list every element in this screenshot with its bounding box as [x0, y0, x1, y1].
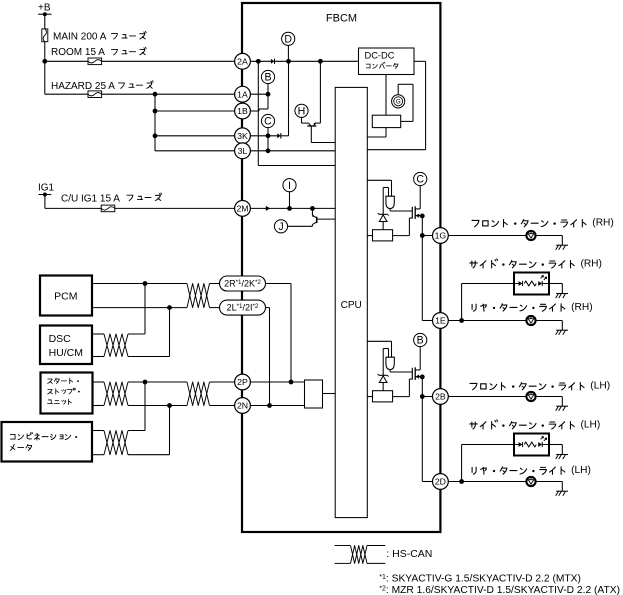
wire 2N row	[250, 405, 304, 407]
bulb front RH	[526, 231, 535, 240]
wire gate out (2B cell)	[389, 370, 391, 372]
wire twistPCM to ovals hi	[210, 283, 220, 285]
wire side LH out	[549, 444, 562, 446]
svg-text:2D: 2D	[435, 477, 446, 487]
pin 1E	[433, 313, 449, 329]
ground front LH	[556, 405, 568, 407]
gate driver symbol (2B cell)	[386, 357, 394, 369]
pin 1G	[433, 228, 449, 244]
LED side marker RH	[514, 273, 549, 295]
fuse HAZARD 25A	[88, 91, 102, 98]
pin 2A	[235, 53, 251, 69]
wire 3K diode up	[281, 135, 289, 137]
driver sense box (2B cell)	[373, 391, 393, 402]
svg-text:1E: 1E	[435, 316, 446, 326]
svg-text:1B: 1B	[237, 106, 248, 116]
svg-text:*2: MZR 1.6/SKYACTIV-D 1.5/SKY: *2: MZR 1.6/SKYACTIV-D 1.5/SKYACTIV-D 2.…	[379, 585, 620, 595]
junction pin row (1G cell)	[420, 233, 425, 238]
junction C/3L	[266, 148, 271, 153]
wire SSU hi	[93, 381, 105, 383]
svg-text:H: H	[298, 106, 306, 118]
via letter C (1G cell)	[414, 172, 427, 185]
twisted pair PCM	[187, 284, 210, 308]
MOSFET body arrow (2B cell)	[416, 375, 420, 379]
wire 2A row	[250, 60, 358, 62]
arrow 2M flow	[266, 206, 270, 211]
wire 3L row	[250, 150, 335, 152]
svg-text:B: B	[264, 72, 271, 84]
junction C/3K	[266, 133, 271, 138]
junction bus/1B	[153, 109, 158, 114]
wire combo lo	[92, 454, 104, 456]
svg-text:I: I	[288, 180, 291, 192]
box start-stop unit	[41, 373, 93, 414]
ground side RH	[556, 293, 568, 295]
transistor J circuit	[311, 208, 313, 215]
LED side marker LH	[514, 434, 549, 456]
wire +B to HAZARD	[44, 61, 46, 94]
wire source to pin (1G cell)	[421, 216, 423, 236]
wire zener link (2B cell)	[382, 349, 384, 376]
junction pin row (2B cell)	[420, 394, 425, 399]
junction SSU lo/combo	[167, 403, 172, 408]
wire 1G to 1E link	[421, 236, 423, 321]
twisted pair SSU	[104, 382, 128, 406]
wire 2R/2K to 2P net	[266, 283, 292, 285]
junction 2Rnet/2P	[289, 380, 294, 385]
box DSC HU/CM	[40, 326, 92, 365]
wire 3K row in	[250, 135, 277, 137]
ground rear RH	[556, 329, 568, 331]
label front turn LH	[470, 383, 477, 389]
wire DC-DC out	[414, 60, 426, 62]
FBCM module box	[242, 3, 440, 532]
wire SSU lo	[93, 405, 105, 407]
junction +B/ROOM	[42, 59, 47, 64]
label rear turn RH	[472, 304, 476, 311]
fuse C/U IG1 15A	[101, 205, 115, 212]
CPU box	[335, 87, 367, 517]
svg-text:J: J	[278, 221, 283, 233]
bulb rear RH	[526, 316, 535, 325]
pin 2D	[433, 474, 449, 490]
bulb front LH	[526, 392, 535, 401]
junction source (2B cell)	[420, 375, 425, 380]
junction SSU hi/combo	[143, 380, 148, 385]
svg-text:ROOM 15 A: ROOM 15 A	[51, 47, 105, 58]
wire G loop	[397, 84, 399, 95]
svg-text:FBCM: FBCM	[326, 13, 357, 25]
wire 2M row	[250, 207, 335, 209]
wire to 2N	[210, 405, 235, 407]
wire ROOM row	[45, 60, 235, 62]
junction 2A-b	[286, 59, 291, 64]
wire CPU to gate driver (1G cell)	[367, 179, 391, 181]
label side turn RH	[470, 261, 477, 268]
wire C to 3L	[267, 136, 269, 151]
wire 2A branch to CPU	[257, 61, 259, 165]
svg-text:(RH): (RH)	[592, 218, 614, 229]
wire IG1	[44, 195, 46, 209]
svg-text:2P: 2P	[237, 377, 248, 387]
MOSFET channel bar (1G cell)	[414, 206, 416, 219]
svg-text:HAZARD 25 A: HAZARD 25 A	[51, 81, 115, 92]
wire side RH feed	[461, 284, 463, 321]
wire DSC hi	[92, 333, 104, 335]
wire 1A row in	[250, 93, 268, 95]
wire side RH out	[549, 283, 562, 285]
junction side feed LH	[459, 479, 464, 484]
svg-text:3L: 3L	[238, 146, 248, 156]
wire to 2P	[210, 381, 235, 383]
wire 2B lamp row	[448, 396, 526, 398]
bulb rear LH	[526, 477, 535, 486]
wire to 3K	[155, 135, 235, 137]
svg-text:C: C	[416, 174, 424, 186]
ground side LH	[556, 454, 568, 456]
wire 2A to 3K diode	[288, 61, 290, 136]
svg-text:(RH): (RH)	[580, 259, 602, 270]
wire 2P row	[250, 381, 304, 383]
svg-text:MAIN 200 A: MAIN 200 A	[53, 31, 107, 42]
wire DC-DC down	[385, 75, 387, 116]
legend HS-CAN twisted pair	[335, 545, 351, 547]
MOSFET gate bar (2B cell)	[411, 368, 413, 380]
svg-text:(LH): (LH)	[571, 465, 591, 476]
junction I/2M	[287, 206, 292, 211]
wire box to CPU (2B cell)	[367, 396, 372, 398]
letter I	[283, 179, 296, 192]
MOSFET channel bar (2B cell)	[414, 367, 416, 380]
wire 1E lamp row	[448, 320, 526, 322]
letter J	[274, 220, 287, 233]
wire to pin circle (1G cell)	[422, 235, 432, 237]
label rear turn LH	[472, 467, 476, 474]
junction 2A-a	[256, 59, 261, 64]
wire PCM lo	[92, 307, 187, 309]
twisted pair combo	[104, 431, 128, 455]
transistor H	[301, 117, 303, 123]
svg-text:3K: 3K	[237, 131, 248, 141]
MOSFET body arrow (1G cell)	[416, 214, 420, 218]
svg-text:2N: 2N	[237, 401, 248, 411]
wire CAN box to CPU	[323, 393, 336, 395]
svg-text:(RH): (RH)	[571, 302, 593, 313]
pin 2P	[235, 374, 251, 390]
pin 2M	[235, 201, 251, 217]
wire 1G lamp row	[448, 235, 526, 237]
wire +B down	[44, 14, 46, 61]
wire bus down	[154, 94, 156, 151]
wire source to pin (2B cell)	[421, 377, 423, 397]
pin 3L	[235, 143, 251, 159]
wire twistPCM to ovals lo	[210, 307, 220, 309]
label side turn LH	[470, 422, 477, 429]
junction B/1A	[266, 92, 271, 97]
fuse MAIN 200A	[42, 29, 48, 42]
wire to 1B	[155, 110, 235, 112]
letter D	[282, 32, 295, 45]
wire gate out (1G cell)	[389, 209, 391, 211]
letter H	[295, 104, 308, 117]
junction 2Lnet/2N	[267, 403, 272, 408]
CAN transceiver box	[305, 380, 323, 408]
svg-text:HU/CM: HU/CM	[49, 347, 83, 359]
node +B terminal	[38, 13, 51, 15]
wire 2A to H transistor	[319, 61, 321, 123]
regulator box	[372, 115, 400, 127]
wire box to source (2B cell)	[393, 396, 410, 398]
wire 1B jog	[250, 110, 259, 112]
wire to pin circle (2B cell)	[422, 396, 432, 398]
wire regulator to CPU	[385, 128, 387, 137]
pin 2N	[235, 398, 251, 414]
wire combo hi	[92, 430, 104, 432]
letter C	[261, 114, 274, 127]
MOSFET gate bar (1G cell)	[411, 207, 413, 219]
svg-text:G: G	[396, 99, 401, 106]
junction side feed RH	[459, 318, 464, 323]
svg-text:*1: SKYACTIV-G 1.5/SKYACTIV-D: *1: SKYACTIV-G 1.5/SKYACTIV-D 2.2 (MTX)	[379, 574, 581, 585]
wire C stub	[267, 128, 269, 136]
wire 2L/2I to 2N net	[266, 307, 270, 309]
junction bus/3K	[153, 133, 158, 138]
MOSFET drain tap (1G cell)	[415, 208, 420, 210]
wire to 1A	[155, 93, 235, 95]
driver sense box (1G cell)	[373, 230, 393, 241]
wire D stub	[287, 45, 289, 61]
svg-text:DSC: DSC	[49, 333, 72, 345]
MOSFET drain tap (2B cell)	[415, 369, 420, 371]
box combination meter	[2, 422, 93, 462]
svg-text:2M: 2M	[236, 204, 248, 214]
diode 3K	[277, 133, 280, 138]
svg-text:B: B	[417, 335, 424, 347]
svg-text:2A: 2A	[237, 56, 248, 66]
DC-DC converter box	[359, 48, 415, 75]
wire I stub	[289, 192, 291, 209]
wire DSC lo	[92, 356, 104, 358]
gate driver symbol (1G cell)	[386, 196, 394, 208]
twisted pair DSC	[104, 334, 128, 357]
svg-text:D: D	[284, 34, 292, 46]
pin 1B	[235, 103, 251, 119]
junction source (1G cell)	[420, 214, 425, 219]
zener diode (1G cell)	[379, 213, 388, 215]
svg-text:C: C	[264, 116, 272, 128]
wire zener link (1G cell)	[382, 188, 384, 215]
wire 2D lamp row	[448, 481, 526, 483]
svg-text:: HS-CAN: : HS-CAN	[386, 548, 432, 560]
wire B stub	[267, 84, 269, 95]
svg-text:DC-DC: DC-DC	[365, 51, 395, 61]
pin 3K	[235, 128, 251, 144]
twisted pair SSU-FBCM	[187, 382, 210, 406]
via 2R/2K oval	[220, 276, 266, 291]
ground front RH	[556, 244, 568, 246]
svg-text:PCM: PCM	[54, 291, 77, 303]
junction HAZARD/1A	[153, 92, 158, 97]
letter G	[392, 95, 405, 108]
svg-text:1A: 1A	[237, 89, 248, 99]
junction DSC lo/PCM lo	[167, 305, 172, 310]
fuse ROOM 15A	[88, 58, 102, 65]
box PCM	[40, 276, 92, 316]
svg-text:(LH): (LH)	[590, 381, 610, 392]
wire PCM hi	[92, 283, 187, 285]
pin 2B	[433, 389, 449, 405]
zener diode (2B cell)	[379, 374, 388, 376]
via 2L/2I oval	[220, 300, 266, 315]
svg-text:2B: 2B	[435, 392, 446, 402]
junction 2A-c	[318, 59, 323, 64]
letter B	[261, 70, 274, 83]
svg-text:IG1: IG1	[38, 183, 55, 194]
wire box to CPU (1G cell)	[367, 235, 372, 237]
diode 2A row	[271, 59, 274, 64]
wire CPU to gate driver (2B cell)	[367, 340, 391, 342]
svg-text:1G: 1G	[435, 231, 447, 241]
pin 1A	[235, 86, 251, 102]
node IG1 terminal	[39, 194, 52, 196]
wire box to source (1G cell)	[393, 235, 410, 237]
junction DSC hi/PCM hi	[143, 281, 148, 286]
label front turn RH	[472, 220, 479, 226]
wire side LH feed	[461, 445, 463, 482]
wire 2B to 2D link	[421, 397, 423, 482]
svg-text:+B: +B	[38, 3, 51, 14]
junction Q-J/2M	[310, 206, 315, 211]
svg-text:CPU: CPU	[341, 300, 362, 311]
wire J stub	[288, 225, 313, 227]
svg-text:(LH): (LH)	[580, 420, 600, 431]
via letter B (2B cell)	[414, 333, 427, 346]
ground rear LH	[556, 490, 568, 492]
wire to 3L	[155, 150, 235, 152]
svg-text:C/U IG1 15 A: C/U IG1 15 A	[61, 193, 120, 204]
